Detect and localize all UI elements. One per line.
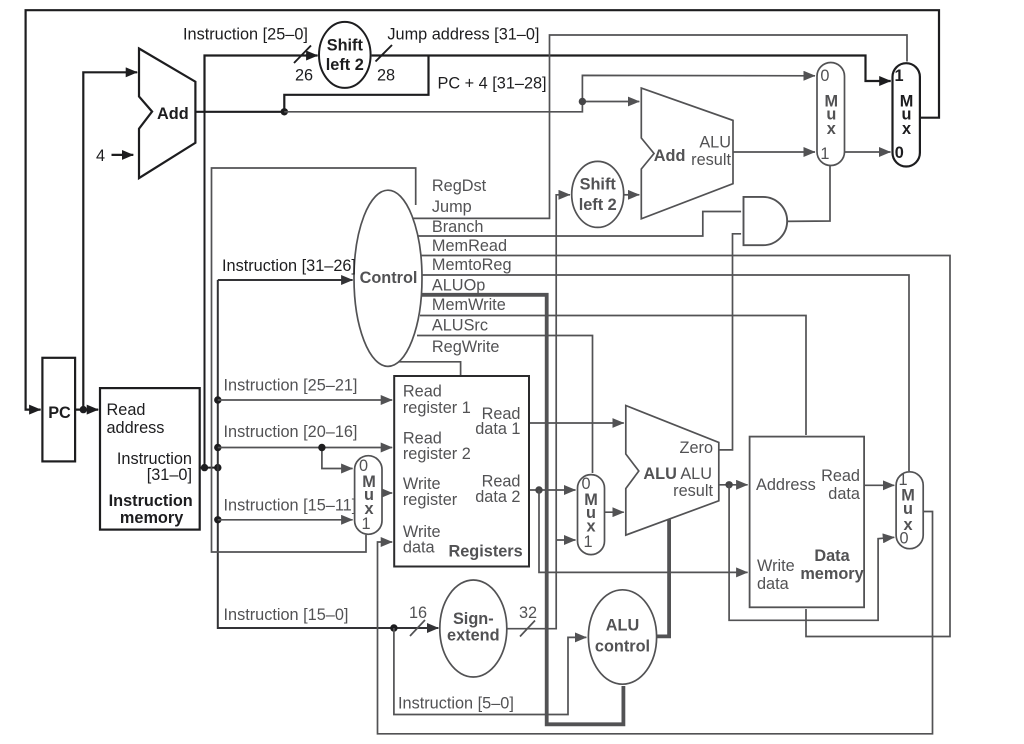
junction dot instruction output right — [214, 464, 221, 471]
svg-text:Jump address [31–0]: Jump address [31–0] — [387, 26, 539, 44]
svg-text:extend: extend — [447, 627, 499, 645]
wire: MemRead control — [421, 256, 950, 637]
svg-text:PC: PC — [48, 404, 71, 422]
svg-text:Sign-: Sign- — [453, 610, 494, 628]
svg-text:0: 0 — [899, 530, 908, 548]
branch adder (Add ALU) — [641, 88, 733, 219]
svg-text:data: data — [828, 485, 861, 503]
shift left 2 (jump) ellipse — [319, 22, 371, 88]
svg-text:left 2: left 2 — [579, 196, 617, 214]
AND gate — [744, 197, 788, 245]
wire: instruction [5-0] to ALU control — [394, 628, 587, 715]
wire: MemWrite control — [420, 316, 806, 436]
main ALU — [626, 406, 719, 536]
svg-text:Instruction [25–0]: Instruction [25–0] — [183, 26, 308, 44]
svg-text:Add: Add — [157, 105, 189, 123]
wire: PC+4[31-28] concatenation tap — [284, 56, 428, 112]
svg-text:1: 1 — [583, 533, 592, 551]
svg-text:Instruction: Instruction — [109, 492, 193, 510]
wire: branch adder result to branch mux input 1 — [733, 151, 815, 153]
mux jump (black 1 Mux 0) — [893, 63, 920, 166]
svg-text:MemtoReg: MemtoReg — [432, 256, 512, 274]
junction dot on PC+4 — [281, 108, 288, 115]
wire: AND gate output to branch mux select — [784, 165, 830, 222]
svg-text:x: x — [902, 120, 911, 138]
PC register box — [42, 358, 75, 462]
wire: MemtoReg control — [422, 275, 910, 471]
svg-text:ALU: ALU — [606, 617, 639, 635]
svg-text:Instruction [20–16]: Instruction [20–16] — [224, 423, 358, 441]
slash 28 after shift left 2 — [376, 45, 393, 62]
slash 16 at sign-extend input — [410, 620, 425, 636]
wire: PC+4 gray to branch adder and jump-area mux — [284, 75, 815, 111]
wire: instruction riser B [31-26]..[15-0] — [218, 280, 439, 628]
svg-text:26: 26 — [295, 67, 313, 85]
svg-text:data: data — [757, 575, 790, 593]
wire: shift-left-2 output to jump mux input 1 — [372, 56, 891, 82]
svg-text:Jump: Jump — [432, 198, 472, 216]
slash 26 on instruction[25-0] — [294, 46, 311, 64]
svg-text:Address: Address — [756, 476, 816, 494]
svg-text:Data: Data — [814, 547, 850, 565]
mux branch (0 Mux 1) — [817, 63, 845, 166]
wire: jump address [31-0] from riser to shift-left-2 to jump mux input 1 — [205, 56, 318, 113]
wire: instruction [20-16] branch down to regdst mux input 0 — [322, 448, 353, 469]
wire: PC+4 adder output — [195, 111, 284, 113]
wire: constant 4 into adder — [112, 154, 134, 156]
svg-text:Zero: Zero — [680, 439, 713, 457]
wire: read data 2 to ALUSrc mux input 0 — [529, 489, 576, 491]
svg-text:address: address — [107, 419, 165, 437]
junction dot riser at 15-11 tap — [214, 516, 221, 523]
svg-text:result: result — [691, 151, 731, 169]
svg-text:[31–0]: [31–0] — [147, 466, 192, 484]
wire: final mux output back to registers write data — [378, 512, 933, 734]
wire: ALUSrc control — [417, 336, 593, 474]
svg-text:Branch: Branch — [432, 218, 484, 236]
svg-text:ALU: ALU — [699, 134, 731, 152]
wire: RegDst control — [212, 168, 416, 552]
wire: instruction [25-0] riser — [204, 56, 206, 468]
svg-text:Instruction [15–0]: Instruction [15–0] — [224, 606, 349, 624]
ALU control ellipse — [588, 590, 656, 684]
svg-text:data 2: data 2 — [475, 488, 520, 506]
svg-text:ALU: ALU — [643, 465, 676, 483]
mux alusrc (0 Mux 1) — [578, 475, 605, 555]
wire: read data 1 to ALU — [529, 422, 624, 424]
svg-text:memory: memory — [800, 565, 863, 583]
wire: shift-left-2 output to branch adder — [624, 194, 639, 196]
slash 32 at sign-extend output — [520, 621, 535, 637]
svg-text:control: control — [595, 638, 650, 656]
shift left 2 (branch) ellipse — [572, 161, 624, 227]
wire: ALU result to data memory address — [719, 484, 748, 486]
wire: RegWrite control — [398, 362, 461, 375]
svg-text:32: 32 — [519, 604, 537, 622]
svg-text:Shift: Shift — [327, 37, 364, 55]
wire: read data 2 down to data memory write data — [539, 490, 748, 572]
svg-text:0: 0 — [895, 144, 904, 162]
svg-text:x: x — [827, 120, 836, 138]
wire: branch control to AND gate — [418, 212, 741, 237]
svg-text:result: result — [673, 482, 713, 500]
svg-text:MemWrite: MemWrite — [432, 296, 506, 314]
junction dot ALU result — [725, 481, 732, 488]
svg-text:ALU: ALU — [680, 465, 712, 483]
svg-text:left 2: left 2 — [326, 56, 364, 74]
svg-text:Read: Read — [107, 401, 146, 419]
adder PC+4 (Add) — [139, 49, 195, 179]
svg-text:ALUOp: ALUOp — [432, 277, 485, 295]
svg-text:Shift: Shift — [580, 176, 617, 194]
registers box — [394, 376, 529, 567]
junction dot instruction output left — [201, 464, 208, 471]
svg-text:0: 0 — [820, 67, 829, 85]
wire: Jump control — [413, 35, 907, 218]
svg-text:Write: Write — [757, 557, 795, 575]
svg-text:register: register — [403, 491, 458, 509]
junction dot at PC output — [80, 406, 87, 413]
wire: ALUSrc mux output to ALU — [605, 511, 624, 513]
wire: PC output to instruction memory read address — [75, 409, 98, 411]
svg-text:Instruction [5–0]: Instruction [5–0] — [398, 695, 514, 713]
wire: regdst mux output to write register — [382, 492, 392, 494]
wire: data memory read data to final mux input 1 — [864, 484, 894, 486]
svg-text:Read: Read — [403, 383, 442, 401]
svg-text:Instruction [25–21]: Instruction [25–21] — [224, 377, 358, 395]
wire: ALUOp control (thick) — [422, 295, 624, 725]
wire: ALU result down and around to final mux input 0 — [729, 485, 894, 621]
svg-text:data: data — [403, 539, 436, 557]
junction dot PC+4 at branch adder — [579, 98, 586, 105]
wire: ALU control output to ALU (thick) — [657, 520, 670, 637]
wire: instruction [15-11] to regdst mux input 1 — [218, 519, 353, 521]
svg-text:4: 4 — [96, 147, 105, 165]
wire: instruction [25-21] to read register 1 — [218, 399, 392, 401]
svg-text:MemRead: MemRead — [432, 237, 507, 255]
svg-text:memory: memory — [120, 509, 183, 527]
junction dot riser at read reg 1 tap — [214, 396, 221, 403]
svg-text:28: 28 — [377, 67, 395, 85]
wire: branch mux output to jump mux input 0 — [845, 151, 891, 153]
svg-text:PC + 4 [31–28]: PC + 4 [31–28] — [438, 75, 547, 93]
svg-text:register 2: register 2 — [403, 445, 471, 463]
instruction memory box — [100, 388, 200, 529]
wire: sign-extend output up to ALUSrc mux and shift-left-2 — [507, 195, 570, 629]
wire: PC+4 branch into adder top input — [582, 101, 639, 103]
mux memtoreg (1 Mux 0) — [896, 472, 923, 549]
svg-text:16: 16 — [409, 604, 427, 622]
wire: ALU zero to AND gate — [719, 234, 741, 450]
wire: branch to ALUSrc mux input 1 — [556, 539, 575, 541]
sign-extend ellipse — [440, 580, 507, 677]
wire: instruction memory output — [200, 467, 218, 469]
wire: PC feedback loop from jump mux output around top and left to PC input — [26, 10, 939, 409]
control ellipse — [354, 190, 422, 366]
junction dot on instruction 15-0 at sign-extend — [390, 624, 397, 631]
svg-text:RegWrite: RegWrite — [432, 338, 500, 356]
junction dot riser at read reg 2 tap — [214, 444, 221, 451]
data memory box — [750, 437, 865, 608]
svg-text:1: 1 — [361, 515, 370, 533]
mux regdst (0 Mux 1) — [355, 456, 382, 535]
junction dot on 20-16 — [318, 444, 325, 451]
svg-text:Registers: Registers — [448, 543, 522, 561]
svg-text:1: 1 — [820, 145, 829, 163]
wire: instruction [20-16] to read register 2 — [218, 447, 392, 449]
svg-text:1: 1 — [894, 67, 903, 85]
svg-text:ALUSrc: ALUSrc — [432, 317, 488, 335]
junction dot read data 2 — [535, 486, 542, 493]
svg-text:Read: Read — [821, 467, 860, 485]
svg-text:Instruction [31–26]: Instruction [31–26] — [222, 257, 356, 275]
svg-text:register 1: register 1 — [403, 399, 471, 417]
wire: PC value up to PC+4 adder — [83, 72, 137, 409]
svg-text:Instruction [15–11]: Instruction [15–11] — [224, 497, 357, 515]
svg-text:RegDst: RegDst — [432, 177, 487, 195]
svg-text:Control: Control — [360, 269, 418, 287]
svg-text:Add: Add — [654, 147, 686, 165]
wire: instruction [31-26] into control — [218, 279, 353, 281]
svg-text:data 1: data 1 — [475, 420, 520, 438]
